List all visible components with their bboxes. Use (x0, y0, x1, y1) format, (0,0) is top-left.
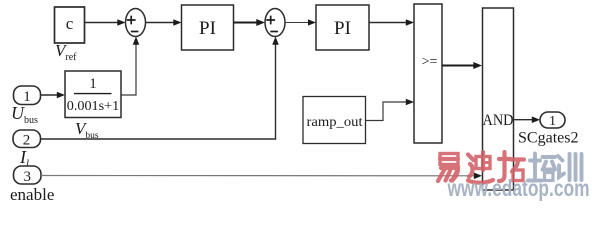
output port 1 (SCgates2) (540, 112, 565, 129)
watermark char 4 (blue-gray) (528, 154, 555, 181)
watermark char 1 (red) (438, 154, 458, 182)
wire PI2 to relational operator (369, 19, 414, 26)
wire port1 to transfer fn (41, 92, 66, 99)
transfer function block 1/(0.001s+1) (65, 71, 121, 118)
wire PI1 to sum2 (bold) (234, 19, 266, 26)
watermark char 2 (red) (468, 152, 493, 183)
svg-text:PI: PI (334, 18, 351, 39)
input port 1 (14, 86, 41, 105)
svg-text:PI: PI (199, 18, 216, 39)
svg-text:3: 3 (23, 169, 31, 185)
AND logical operator block (483, 8, 514, 190)
wire c to sum1 (85, 19, 126, 26)
wire transfer fn to sum1 (feedback) (121, 37, 139, 96)
wire relational to AND (bold) (442, 62, 482, 69)
relational operator block >= (414, 4, 442, 143)
summing junction S2 (265, 9, 285, 37)
svg-text:SCgates2: SCgates2 (518, 130, 579, 147)
svg-text:ramp_out: ramp_out (307, 115, 363, 130)
svg-text:c: c (66, 14, 74, 33)
wire ramp_out to relational operator (366, 99, 415, 121)
input port 2 (13, 130, 41, 149)
watermark char 3 (red) (499, 152, 524, 181)
svg-text:0.001s+1: 0.001s+1 (67, 98, 120, 113)
svg-text:1: 1 (23, 89, 31, 105)
svg-text:1: 1 (549, 114, 556, 129)
wire AND to output port (514, 116, 541, 123)
wire enable to AND (41, 173, 482, 180)
PI controller block U1 (PI) (182, 5, 234, 50)
wire sum2 to PI2 (285, 19, 316, 25)
summing junction S1 (126, 9, 146, 37)
watermark char 5 (blue-gray) (558, 154, 582, 180)
svg-text:www.edatop.com: www.edatop.com (447, 175, 590, 201)
svg-text:>=: >= (422, 55, 438, 70)
wire port2 to sum2 (41, 37, 279, 140)
wire sum1 to PI1 (146, 19, 182, 26)
svg-text:AND: AND (483, 112, 514, 129)
PI controller block U2 (PI) (316, 5, 369, 50)
svg-text:1: 1 (89, 76, 97, 92)
ramp_out block (303, 97, 366, 144)
constant block C (c) (55, 7, 85, 43)
input port 3 (14, 166, 42, 185)
svg-text:enable: enable (10, 185, 54, 202)
